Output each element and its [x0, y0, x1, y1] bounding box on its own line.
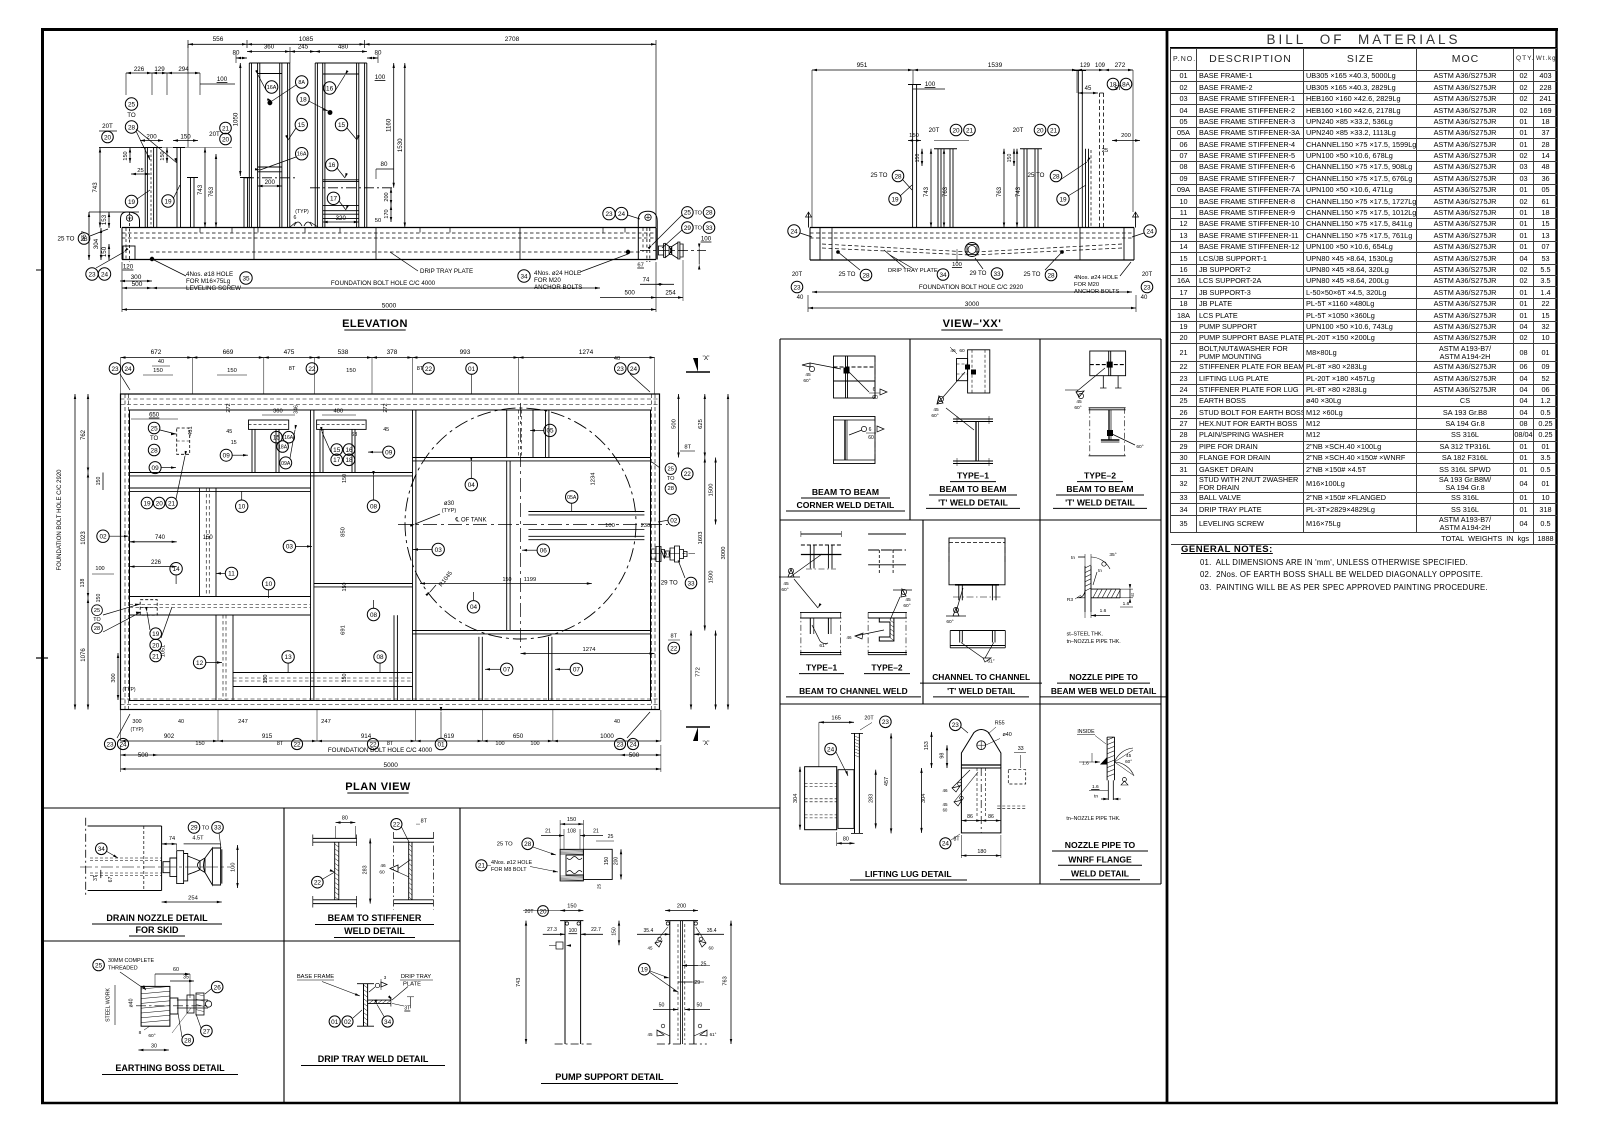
svg-text:254: 254 [665, 289, 676, 296]
svg-text:762: 762 [81, 429, 87, 440]
svg-text:08: 08 [376, 654, 384, 661]
svg-text:45: 45 [783, 581, 789, 587]
svg-text:763: 763 [208, 186, 215, 197]
svg-text:35.4: 35.4 [707, 928, 717, 934]
svg-text:15: 15 [338, 122, 346, 129]
svg-text:80: 80 [381, 161, 388, 168]
svg-text:378: 378 [387, 349, 398, 356]
svg-text:226: 226 [134, 66, 145, 73]
svg-text:20T: 20T [792, 272, 803, 278]
svg-text:283: 283 [363, 865, 369, 874]
svg-text:8T: 8T [277, 741, 284, 747]
svg-text:35°: 35° [1109, 552, 1116, 558]
svg-text:15: 15 [298, 122, 306, 129]
svg-text:50: 50 [659, 1003, 665, 1009]
svg-text:8T: 8T [421, 819, 428, 825]
svg-text:200: 200 [384, 192, 390, 201]
svg-text:346: 346 [293, 405, 299, 414]
svg-text:200: 200 [614, 857, 620, 866]
svg-text:22: 22 [308, 366, 316, 373]
svg-text:60°: 60° [1136, 444, 1143, 450]
svg-text:FOUNDATION BOLT HOLE C/C 4000: FOUNDATION BOLT HOLE C/C 4000 [328, 747, 433, 754]
svg-text:763: 763 [997, 186, 1003, 197]
svg-text:100: 100 [925, 81, 936, 88]
svg-text:4Nos. ø12 HOLE: 4Nos. ø12 HOLE [491, 860, 532, 866]
svg-text:17: 17 [333, 457, 341, 464]
svg-text:DRIP TRAY PLATE: DRIP TRAY PLATE [888, 268, 938, 274]
svg-text:1076: 1076 [81, 648, 87, 662]
svg-text:80: 80 [342, 816, 348, 822]
svg-text:4Nos. ø24 HOLE: 4Nos. ø24 HOLE [1074, 275, 1118, 281]
svg-text:25: 25 [137, 168, 143, 174]
svg-text:21: 21 [1050, 127, 1058, 134]
svg-text:100: 100 [230, 863, 236, 872]
svg-text:45: 45 [1076, 399, 1082, 405]
svg-text:33: 33 [687, 580, 695, 587]
svg-text:25 TO: 25 TO [871, 172, 888, 179]
svg-text:150: 150 [263, 675, 269, 684]
svg-text:20T: 20T [929, 127, 940, 134]
svg-text:108: 108 [567, 829, 576, 835]
svg-text:22: 22 [670, 645, 678, 652]
svg-text:61°: 61° [819, 643, 826, 649]
svg-text:300: 300 [111, 673, 117, 682]
svg-text:40: 40 [158, 359, 164, 365]
svg-text:46: 46 [846, 635, 852, 640]
svg-text:22: 22 [369, 741, 377, 748]
svg-text:150: 150 [123, 151, 129, 160]
svg-text:16: 16 [345, 447, 353, 454]
svg-text:272: 272 [1115, 62, 1126, 69]
svg-text:29: 29 [694, 980, 700, 986]
svg-text:16A: 16A [297, 152, 307, 158]
svg-text:LIFTING LUG DETAIL: LIFTING LUG DETAIL [865, 869, 952, 879]
svg-text:24: 24 [124, 366, 132, 373]
svg-text:60: 60 [379, 870, 385, 876]
svg-text:19: 19 [641, 967, 649, 974]
svg-text:672: 672 [151, 349, 162, 356]
svg-text:07: 07 [503, 667, 511, 674]
svg-text:(TYP): (TYP) [295, 209, 309, 215]
svg-text:67: 67 [108, 877, 114, 883]
svg-text:20: 20 [156, 500, 164, 507]
svg-text:150: 150 [342, 474, 348, 483]
svg-text:24: 24 [790, 228, 798, 235]
svg-text:CORNER WELD DETAIL: CORNER WELD DETAIL [797, 500, 895, 510]
svg-text:NOZZLE PIPE TO: NOZZLE PIPE TO [1065, 840, 1136, 850]
svg-text:04: 04 [468, 482, 476, 489]
svg-text:20: 20 [152, 642, 160, 649]
svg-text:23: 23 [617, 366, 625, 373]
svg-text:150: 150 [604, 857, 610, 866]
svg-text:THREADED: THREADED [108, 966, 138, 972]
svg-text:300: 300 [131, 274, 142, 281]
svg-text:FOUNDATION BOLT HOLE C/C 4000: FOUNDATION BOLT HOLE C/C 4000 [331, 280, 436, 287]
svg-text:247: 247 [238, 719, 248, 725]
svg-text:PLATE: PLATE [403, 982, 421, 988]
svg-text:1603: 1603 [698, 532, 704, 545]
svg-text:28: 28 [184, 1037, 192, 1044]
svg-text:st: st [1130, 593, 1135, 597]
svg-text:06: 06 [540, 548, 548, 555]
svg-text:DRIP TRAY WELD DETAIL: DRIP TRAY WELD DETAIL [318, 1054, 429, 1064]
svg-text:743: 743 [197, 184, 204, 195]
svg-text:46: 46 [380, 863, 386, 869]
svg-text:24: 24 [629, 741, 637, 748]
svg-text:20: 20 [1036, 127, 1044, 134]
svg-text:100: 100 [375, 74, 386, 81]
svg-text:22: 22 [684, 471, 692, 478]
svg-text:304: 304 [921, 794, 927, 803]
svg-text:27.3: 27.3 [547, 927, 557, 933]
svg-text:300: 300 [132, 719, 141, 725]
svg-text:TO: TO [694, 226, 702, 232]
svg-text:226: 226 [151, 560, 162, 566]
svg-text:1051: 1051 [160, 645, 166, 657]
svg-text:FOR M16×75Lg: FOR M16×75Lg [186, 278, 231, 285]
svg-text:150: 150 [227, 368, 237, 374]
svg-text:138: 138 [80, 579, 86, 588]
svg-text:04: 04 [470, 604, 478, 611]
svg-text:BEAM TO BEAM: BEAM TO BEAM [812, 487, 879, 497]
svg-text:01: 01 [437, 741, 445, 748]
svg-text:19: 19 [152, 631, 160, 638]
svg-text:1274: 1274 [579, 349, 594, 356]
svg-text:19: 19 [891, 196, 899, 203]
svg-text:283: 283 [869, 794, 875, 803]
svg-text:25: 25 [94, 608, 100, 614]
svg-text:NOZZLE PIPE TO: NOZZLE PIPE TO [1069, 672, 1138, 682]
svg-text:25: 25 [128, 101, 136, 108]
svg-text:21: 21 [168, 500, 176, 507]
svg-text:500: 500 [132, 281, 143, 288]
svg-text:34: 34 [384, 1019, 392, 1026]
svg-text:61°: 61° [710, 1032, 717, 1037]
svg-text:772: 772 [696, 667, 702, 677]
svg-text:LEVELING SCREW: LEVELING SCREW [186, 285, 241, 292]
svg-text:150: 150 [915, 154, 921, 163]
svg-text:320: 320 [336, 215, 347, 222]
svg-text:33: 33 [214, 825, 222, 832]
svg-text:DRAIN NOZZLE DETAIL: DRAIN NOZZLE DETAIL [106, 913, 208, 923]
svg-text:538: 538 [338, 349, 349, 356]
svg-text:743: 743 [924, 186, 930, 197]
svg-text:08: 08 [370, 504, 378, 511]
svg-text:'T' WELD DETAIL: 'T' WELD DETAIL [947, 686, 1015, 696]
svg-text:4Nos. ø18 HOLE: 4Nos. ø18 HOLE [186, 271, 233, 278]
svg-text:24: 24 [942, 841, 950, 848]
svg-text:74: 74 [169, 836, 175, 842]
svg-text:360: 360 [273, 409, 283, 415]
svg-text:29: 29 [190, 825, 198, 832]
svg-text:BEAM WEB WELD DETAIL: BEAM WEB WELD DETAIL [1051, 686, 1156, 696]
svg-text:20T: 20T [1013, 127, 1024, 134]
svg-text:33: 33 [993, 271, 1001, 278]
svg-text:294: 294 [178, 66, 189, 73]
svg-text:TYPE–2: TYPE–2 [871, 663, 903, 673]
svg-text:ANCHOR BOLTS: ANCHOR BOLTS [534, 284, 582, 291]
svg-text:1160: 1160 [386, 118, 393, 132]
svg-text:18: 18 [300, 96, 308, 103]
svg-text:22: 22 [293, 741, 301, 748]
svg-text:60: 60 [173, 967, 179, 973]
svg-text:21: 21 [222, 125, 230, 132]
svg-text:902: 902 [164, 733, 175, 740]
svg-text:33: 33 [1018, 746, 1024, 752]
svg-text:PLAN VIEW: PLAN VIEW [345, 781, 411, 793]
svg-text:50: 50 [697, 1003, 703, 1009]
svg-text:8A: 8A [1122, 81, 1131, 88]
svg-text:8T: 8T [289, 366, 296, 372]
svg-text:24: 24 [101, 271, 109, 278]
svg-text:200: 200 [265, 179, 276, 186]
svg-text:457: 457 [884, 777, 890, 786]
svg-text:21: 21 [545, 829, 551, 835]
svg-text:150: 150 [342, 674, 348, 683]
svg-text:1.6: 1.6 [1100, 608, 1107, 614]
svg-text:WELD DETAIL: WELD DETAIL [1071, 869, 1129, 879]
svg-text:45: 45 [383, 427, 389, 433]
svg-text:200: 200 [1121, 133, 1131, 139]
svg-text:165: 165 [831, 716, 841, 722]
svg-text:BEAM TO CHANNEL WELD: BEAM TO CHANNEL WELD [799, 686, 908, 696]
svg-text:BEAM TO BEAM: BEAM TO BEAM [939, 484, 1006, 494]
svg-text:763: 763 [723, 976, 729, 985]
svg-text:129: 129 [154, 66, 165, 73]
svg-text:05A: 05A [567, 495, 577, 501]
svg-text:(TYP): (TYP) [130, 727, 143, 733]
svg-text:60°: 60° [1125, 759, 1132, 764]
svg-text:1050: 1050 [232, 112, 239, 126]
svg-text:74: 74 [643, 278, 650, 284]
svg-text:480: 480 [338, 44, 349, 51]
svg-text:tn–NOZZLE PIPE THK.: tn–NOZZLE PIPE THK. [1067, 639, 1121, 645]
svg-text:28: 28 [894, 173, 902, 180]
svg-text:28: 28 [862, 272, 870, 279]
svg-text:60°: 60° [803, 378, 810, 384]
svg-text:22.7: 22.7 [591, 927, 601, 933]
svg-text:TO: TO [667, 476, 675, 482]
svg-text:272: 272 [383, 403, 389, 412]
svg-text:34: 34 [939, 272, 947, 279]
svg-text:360: 360 [264, 44, 275, 51]
svg-text:100: 100 [217, 76, 228, 83]
svg-text:556: 556 [213, 36, 224, 43]
svg-text:20T: 20T [102, 123, 113, 130]
svg-text:150: 150 [180, 134, 191, 141]
svg-text:8T: 8T [684, 444, 691, 450]
svg-text:TO: TO [694, 211, 702, 217]
svg-text:153: 153 [101, 214, 108, 225]
svg-text:60°: 60° [903, 603, 910, 609]
svg-text:TO: TO [127, 112, 136, 119]
svg-text:25: 25 [1102, 148, 1108, 154]
svg-text:230: 230 [641, 523, 651, 529]
svg-text:19: 19 [143, 500, 151, 507]
svg-text:763: 763 [943, 186, 949, 197]
svg-text:22: 22 [314, 880, 322, 887]
svg-text:VIEW–'XX': VIEW–'XX' [943, 318, 1002, 330]
svg-text:FOR M20: FOR M20 [534, 277, 561, 284]
svg-text:60: 60 [872, 395, 878, 401]
svg-text:120: 120 [123, 264, 134, 271]
svg-text:25 TO: 25 TO [1024, 271, 1041, 278]
svg-text:28: 28 [667, 486, 673, 492]
svg-text:993: 993 [460, 349, 471, 356]
svg-text:951: 951 [857, 62, 868, 69]
svg-text:28: 28 [80, 236, 88, 243]
svg-text:60°: 60° [148, 1033, 155, 1039]
svg-text:254: 254 [188, 896, 198, 902]
svg-text:25: 25 [684, 210, 692, 217]
svg-text:150: 150 [160, 151, 166, 160]
svg-text:743: 743 [1016, 186, 1022, 197]
svg-text:28: 28 [1047, 272, 1055, 279]
svg-text:20: 20 [952, 127, 960, 134]
svg-text:1500: 1500 [709, 571, 715, 584]
svg-text:BEAM TO STIFFENER: BEAM TO STIFFENER [328, 913, 422, 923]
svg-text:150: 150 [153, 368, 163, 374]
svg-text:29 TO: 29 TO [970, 270, 987, 277]
svg-text:(TYP): (TYP) [442, 508, 457, 514]
svg-text:11: 11 [228, 571, 235, 578]
svg-text:02: 02 [670, 518, 678, 525]
svg-text:98: 98 [940, 753, 946, 759]
svg-text:FOR SKID: FOR SKID [135, 925, 179, 935]
svg-text:46: 46 [950, 348, 956, 354]
svg-text:23: 23 [88, 271, 96, 278]
svg-text:05: 05 [546, 428, 554, 435]
svg-text:R55: R55 [995, 720, 1005, 726]
svg-text:INSIDE: INSIDE [1077, 729, 1095, 735]
svg-text:FOUNDATION BOLT HOLE C/C 2920: FOUNDATION BOLT HOLE C/C 2920 [919, 284, 1024, 291]
svg-text:02: 02 [99, 534, 107, 541]
svg-text:3: 3 [384, 975, 387, 980]
svg-text:109: 109 [1095, 63, 1106, 69]
svg-text:BEAM TO BEAM: BEAM TO BEAM [1066, 484, 1133, 494]
svg-text:EARTHING BOSS DETAIL: EARTHING BOSS DETAIL [115, 1063, 225, 1073]
svg-text:24: 24 [630, 366, 638, 373]
svg-text:150: 150 [101, 246, 108, 257]
svg-text:150: 150 [503, 577, 512, 583]
svg-text:1.6: 1.6 [1123, 601, 1130, 607]
svg-text:TYPE–2: TYPE–2 [1084, 471, 1116, 481]
svg-text:28: 28 [94, 626, 100, 632]
svg-text:23: 23 [616, 741, 624, 748]
svg-text:26: 26 [214, 984, 222, 991]
svg-text:150: 150 [96, 477, 102, 486]
svg-text:180: 180 [977, 849, 986, 855]
svg-text:28: 28 [524, 841, 532, 848]
svg-text:150: 150 [909, 133, 919, 139]
svg-text:8: 8 [139, 1030, 142, 1036]
svg-text:3000: 3000 [965, 301, 980, 308]
svg-text:22: 22 [425, 366, 433, 373]
svg-text:16: 16 [326, 85, 334, 92]
svg-text:153: 153 [924, 741, 930, 750]
svg-text:40: 40 [614, 356, 620, 362]
svg-text:ø40: ø40 [1002, 732, 1011, 738]
svg-text:08: 08 [370, 612, 378, 619]
svg-text:100: 100 [701, 236, 712, 243]
svg-text:28: 28 [1052, 173, 1060, 180]
svg-text:23: 23 [605, 211, 613, 218]
svg-text:80: 80 [843, 837, 849, 843]
svg-text:16A: 16A [267, 85, 277, 91]
svg-text:500: 500 [138, 752, 149, 759]
svg-text:6: 6 [873, 387, 876, 393]
svg-text:8A: 8A [298, 80, 305, 86]
svg-text:30: 30 [151, 1044, 157, 1050]
svg-text:DRIP TRAY: DRIP TRAY [401, 974, 431, 980]
svg-text:R1045: R1045 [438, 570, 454, 588]
svg-text:03: 03 [286, 544, 294, 551]
svg-text:25: 25 [701, 962, 707, 968]
svg-text:1500: 1500 [709, 484, 715, 497]
svg-text:100: 100 [530, 741, 539, 747]
svg-text:150: 150 [342, 583, 348, 592]
svg-text:60°: 60° [946, 619, 953, 625]
svg-text:150: 150 [567, 904, 576, 910]
svg-text:619: 619 [444, 733, 455, 740]
svg-text:100: 100 [605, 523, 615, 529]
svg-text:150: 150 [1007, 154, 1013, 163]
svg-text:1.6: 1.6 [1082, 761, 1089, 767]
svg-text:2708: 2708 [505, 36, 520, 43]
svg-text:25 TO: 25 TO [839, 271, 856, 278]
svg-text:20T: 20T [1142, 272, 1153, 278]
svg-text:4Nos. ø24 HOLE: 4Nos. ø24 HOLE [534, 270, 581, 277]
svg-text:247: 247 [321, 719, 331, 725]
svg-text:61°: 61° [987, 659, 994, 665]
svg-text:480: 480 [333, 409, 343, 415]
svg-text:25 TO: 25 TO [1028, 172, 1045, 179]
svg-text:17: 17 [330, 196, 338, 203]
svg-text:07: 07 [573, 667, 581, 674]
svg-text:20: 20 [222, 136, 230, 143]
svg-text:ELEVATION: ELEVATION [342, 318, 408, 330]
svg-text:45: 45 [942, 802, 948, 807]
svg-text:18: 18 [345, 457, 353, 464]
svg-text:45: 45 [1085, 86, 1092, 92]
svg-text:20: 20 [539, 908, 547, 915]
svg-text:'T' WELD DETAIL: 'T' WELD DETAIL [938, 497, 1008, 507]
svg-text:24: 24 [618, 211, 626, 218]
svg-text:01: 01 [468, 366, 476, 373]
svg-text:23: 23 [882, 719, 890, 726]
svg-text:3000: 3000 [721, 547, 727, 560]
svg-text:20T: 20T [209, 131, 220, 138]
svg-text:09: 09 [385, 449, 393, 456]
svg-text:20T: 20T [525, 909, 535, 915]
svg-text:60°: 60° [931, 413, 938, 419]
svg-text:12: 12 [196, 660, 204, 667]
svg-text:28: 28 [128, 124, 136, 131]
svg-text:19: 19 [164, 198, 172, 205]
svg-text:13: 13 [285, 654, 293, 661]
svg-text:WNRF FLANGE: WNRF FLANGE [1068, 854, 1132, 864]
svg-text:24: 24 [119, 741, 127, 748]
svg-text:19: 19 [128, 199, 136, 206]
svg-text:16A: 16A [284, 435, 294, 441]
svg-text:10: 10 [238, 504, 246, 511]
svg-text:24: 24 [1146, 228, 1154, 235]
svg-text:6: 6 [294, 215, 297, 221]
svg-text:19: 19 [1059, 196, 1067, 203]
svg-text:669: 669 [223, 349, 234, 356]
svg-text:45: 45 [647, 1032, 653, 1037]
svg-text:650: 650 [513, 733, 524, 740]
